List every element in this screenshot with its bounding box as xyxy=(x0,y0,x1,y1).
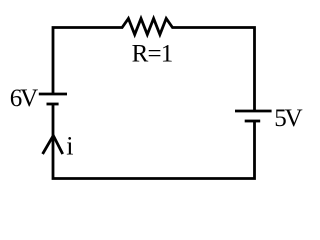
battery B2 (5V) positive long plate xyxy=(235,110,272,113)
battery B1 (6V) negative short plate xyxy=(47,103,59,106)
current arrow i (pointing up on left wire) xyxy=(43,136,63,155)
wire: bottom loop from left battery negative plate down, across bottom, up to right battery negative plate xyxy=(53,104,255,179)
wire: top side with resistor zigzag, from left battery positive plate up, across top, down to right battery positive plate xyxy=(53,19,255,112)
battery B1 (6V) positive long plate xyxy=(39,93,67,96)
svg-text:5V: 5V xyxy=(274,105,302,132)
svg-text:R=1: R=1 xyxy=(132,41,173,68)
battery B2 (5V) negative short plate xyxy=(245,120,261,123)
svg-text:i: i xyxy=(66,132,73,161)
svg-text:6V: 6V xyxy=(10,85,38,112)
